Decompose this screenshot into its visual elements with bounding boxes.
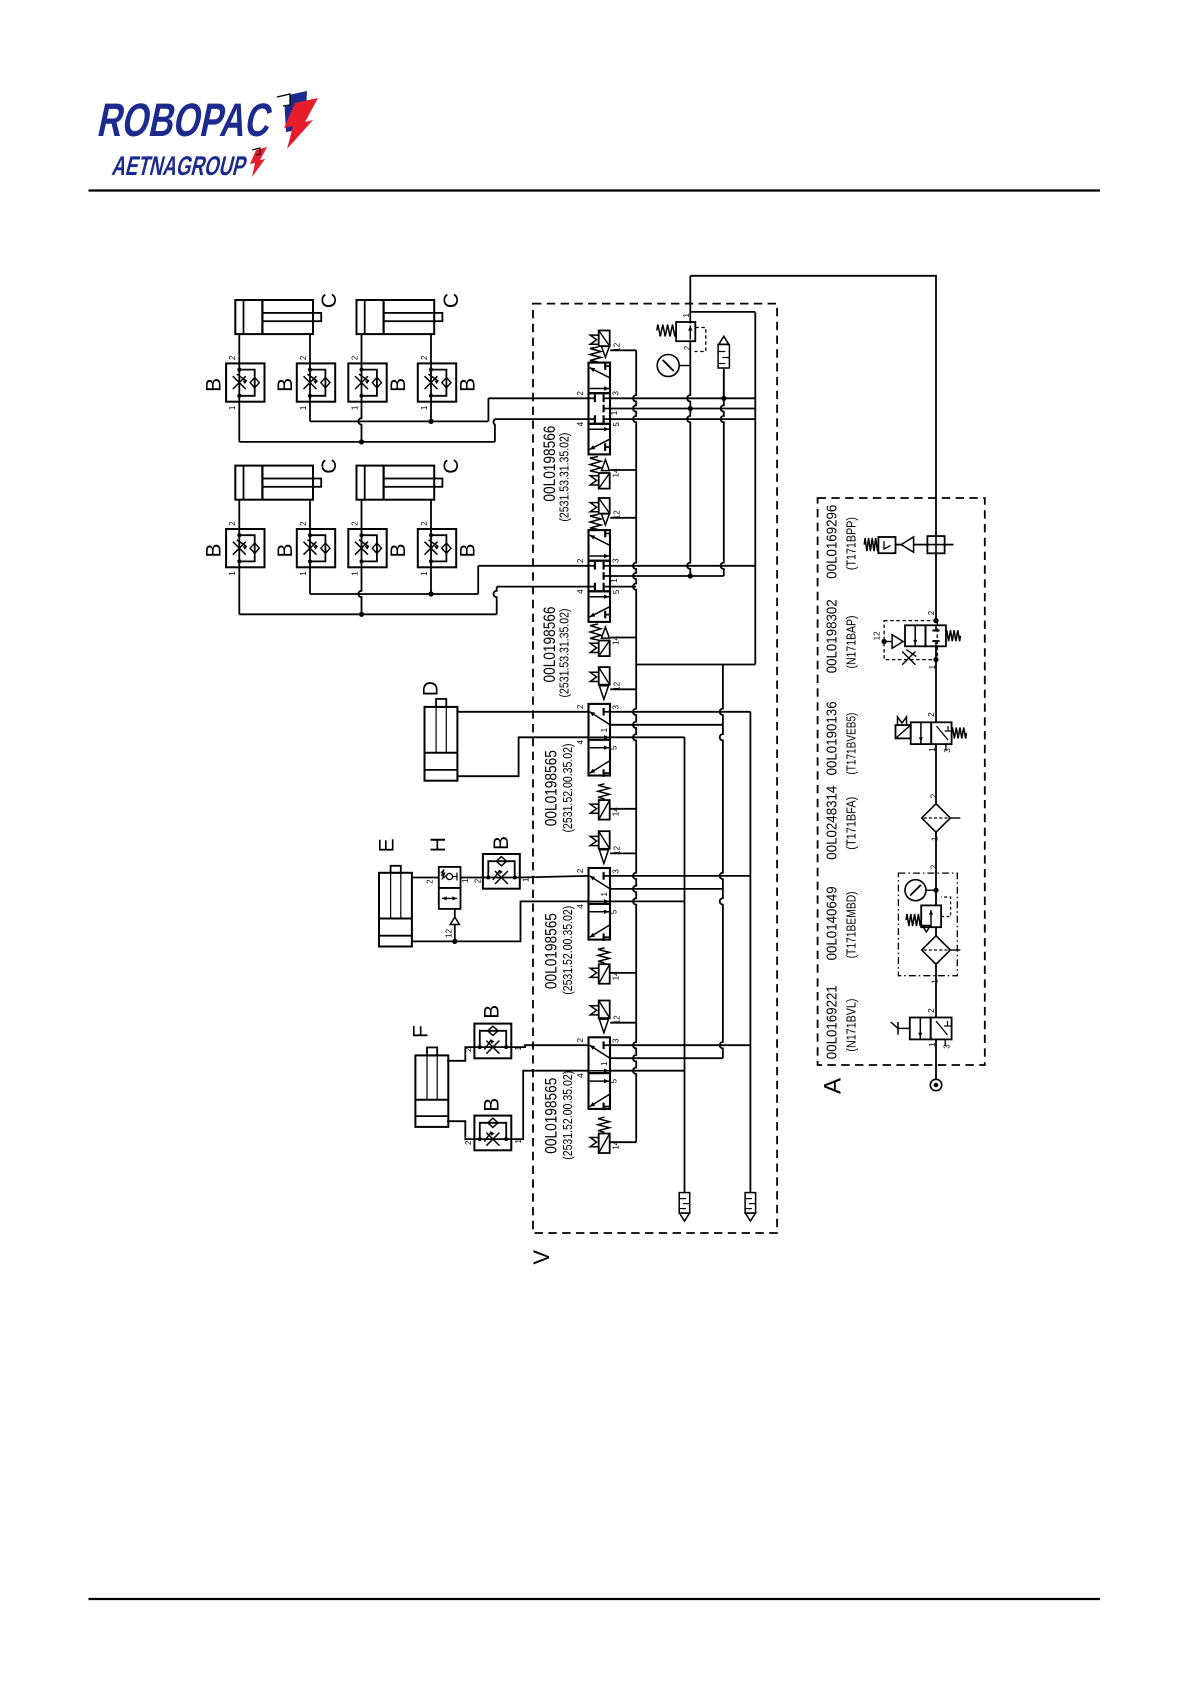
wire B lower to S5 port4 [511, 1071, 588, 1139]
5/3 right position flows [590, 535, 610, 545]
S5 port3 line [610, 1044, 750, 1046]
svg-text:1: 1 [610, 410, 619, 415]
flow control valve B2 [297, 363, 335, 401]
svg-text:(T171BFA): (T171BFA) [845, 797, 859, 850]
valve station S2 00L0198566 [589, 498, 611, 656]
svg-text:3: 3 [943, 1044, 952, 1049]
svg-text:1: 1 [350, 405, 359, 410]
svg-text:V: V [529, 1250, 554, 1265]
soft start dashed frame [884, 621, 937, 660]
mid link line [636, 664, 755, 666]
cylinder E [379, 873, 412, 947]
5/2 top pilot solenoid [599, 1019, 608, 1033]
svg-text:4: 4 [576, 589, 585, 594]
svg-text:5: 5 [610, 745, 619, 750]
5/3 left position flows [590, 607, 610, 617]
wire cylinder to B3 [361, 500, 363, 529]
flow control valve B1 [226, 363, 264, 401]
svg-text:(2531.53.31.35.02): (2531.53.31.35.02) [557, 433, 571, 522]
5/3 center box blocked ports [589, 565, 595, 567]
svg-text:4: 4 [576, 1073, 585, 1078]
svg-text:2: 2 [927, 712, 936, 717]
valve station S3 00L0198565 [589, 667, 611, 820]
S4 port1 line [610, 888, 723, 890]
svg-text:1: 1 [931, 836, 940, 841]
pressure switch box [878, 537, 895, 553]
svg-text:12: 12 [444, 928, 453, 937]
5/2 valve body boxes [589, 740, 611, 776]
5/2 top pilot solenoid [599, 686, 608, 700]
station S5 pilot tap lines [610, 1022, 636, 1024]
5/2 box1 flows [590, 876, 610, 889]
svg-text:(T171BPP): (T171BPP) [845, 517, 859, 570]
svg-text:AETNAGROUP: AETNAGROUP [110, 150, 251, 181]
shutoff valve handle [898, 1027, 910, 1029]
relief valve [676, 322, 695, 341]
cylinder C (left) [235, 300, 313, 334]
svg-text:4: 4 [576, 904, 585, 909]
wire B to S4 port2 [520, 876, 589, 878]
wire D bottom port to S3 port4 [457, 737, 588, 776]
5/2 top pilot solenoid [599, 850, 608, 864]
shutoff valve body [910, 1018, 931, 1040]
svg-text:1: 1 [228, 571, 237, 576]
svg-text:(T171BEMBD): (T171BEMBD) [845, 891, 859, 958]
lower supply rail [720, 665, 723, 1059]
soft start pilot triangle [892, 635, 903, 649]
5/3 left position flows [590, 439, 610, 449]
svg-text:5: 5 [612, 422, 621, 427]
flow control valve B (F lower) [474, 1116, 511, 1151]
flow control valve B3 [348, 363, 386, 401]
filter diamond [922, 804, 951, 833]
upper rail from top silencer [721, 370, 724, 576]
gauge in unit [905, 880, 926, 901]
svg-text:(2531.52.00.35.02): (2531.52.00.35.02) [561, 744, 575, 833]
svg-text:C: C [318, 459, 341, 474]
5/2 bottom spring + solenoid [598, 784, 610, 799]
svg-text:1: 1 [228, 405, 237, 410]
cylinder C (left) [235, 466, 313, 500]
svg-text:B: B [274, 543, 297, 557]
svg-text:4: 4 [576, 421, 585, 426]
wire cylinder to B4 [430, 334, 432, 363]
svg-text:3: 3 [611, 1038, 620, 1043]
Aetnagroup logo [110, 150, 251, 181]
svg-text:2: 2 [576, 1037, 585, 1042]
svg-text:C: C [440, 459, 463, 474]
svg-text:A: A [820, 1078, 847, 1094]
dashed enclosure A [818, 498, 985, 1065]
svg-text:B: B [490, 836, 513, 850]
svg-text:2: 2 [930, 793, 939, 798]
wire F top port to B upper [447, 1047, 474, 1061]
S1 port3 line [610, 397, 755, 399]
svg-text:2: 2 [420, 355, 429, 360]
svg-text:00L0198302: 00L0198302 [824, 599, 841, 673]
svg-text:1: 1 [931, 979, 940, 984]
S2 port3 line [610, 565, 755, 567]
5/3 left pilot solenoid+spring [590, 624, 601, 640]
svg-text:2: 2 [299, 355, 308, 360]
5/2 box2 flows [590, 761, 610, 774]
svg-text:2: 2 [299, 521, 308, 526]
5/3 valve body boxes [589, 591, 611, 622]
svg-text:1: 1 [420, 405, 429, 410]
wire E bottom + H pilot to S4 port4 [412, 901, 588, 941]
flow control valve B3 [348, 529, 386, 567]
svg-text:C: C [440, 293, 463, 308]
svg-text:B: B [387, 543, 410, 557]
svg-text:(2531.52.00.35.02): (2531.52.00.35.02) [561, 1071, 575, 1160]
svg-text:B: B [387, 378, 410, 392]
svg-text:1: 1 [420, 571, 429, 576]
svg-text:00L0169221: 00L0169221 [824, 985, 841, 1059]
svg-text:1: 1 [350, 571, 359, 576]
5/2 box2 flows [590, 1094, 610, 1107]
soft start spring [946, 630, 961, 641]
left silencer [679, 1193, 690, 1214]
svg-text:2: 2 [350, 521, 359, 526]
svg-text:2: 2 [464, 1140, 473, 1145]
S4 port3 line [610, 875, 750, 877]
cylinder F [415, 1055, 448, 1127]
footer rule [89, 1598, 1101, 1600]
svg-text:B: B [480, 1005, 503, 1019]
svg-text:F: F [410, 1025, 433, 1038]
exhaust valve solenoid [896, 725, 911, 738]
valve station S4 00L0198565 [589, 831, 611, 984]
svg-text:(T171BVEB5): (T171BVEB5) [845, 713, 859, 775]
svg-text:3: 3 [943, 748, 952, 753]
wire B upper to S5 port2 [511, 1045, 588, 1047]
svg-text:2: 2 [420, 521, 429, 526]
svg-text:1: 1 [299, 405, 308, 410]
Robopac logo lightning bolt [277, 91, 318, 149]
svg-text:1: 1 [600, 892, 609, 897]
regulator vent triangle [922, 926, 930, 933]
5/3 valve body boxes [589, 424, 611, 455]
svg-text:2: 2 [350, 355, 359, 360]
right silencer [745, 1193, 756, 1214]
upper right exhaust rail [754, 312, 756, 664]
svg-text:3: 3 [611, 391, 620, 396]
S5 port5 line [610, 1070, 684, 1072]
svg-text:2: 2 [576, 558, 585, 563]
station S3 pilot tap lines [610, 688, 636, 690]
valve station S5 00L0198565 [589, 1000, 611, 1153]
svg-text:3: 3 [611, 705, 620, 710]
svg-text:B: B [202, 543, 225, 557]
pressure switch spring [864, 538, 878, 551]
S3 port1 line [610, 724, 723, 726]
wire cylinder to B4 [430, 500, 432, 529]
svg-text:00L0190136: 00L0190136 [824, 701, 841, 775]
5/2 box1 flows [590, 1045, 610, 1058]
5/3 right pilot solenoid+spring [590, 515, 601, 530]
svg-text:B: B [202, 378, 225, 392]
svg-text:00L0198565: 00L0198565 [543, 750, 561, 826]
check valve triangle [901, 537, 913, 552]
svg-text:5: 5 [610, 909, 619, 914]
top silencer [719, 336, 729, 344]
flow control valve B4 [418, 363, 456, 401]
pressure gauge [657, 355, 679, 377]
top branch line [690, 311, 755, 313]
svg-text:(2531.53.31.35.02): (2531.53.31.35.02) [557, 609, 571, 698]
svg-text:00L0140649: 00L0140649 [824, 886, 841, 960]
svg-text:00L0198566: 00L0198566 [541, 426, 559, 502]
svg-text:2: 2 [576, 868, 585, 873]
exhaust rail to left silencer [684, 737, 686, 1192]
S5 port1 line [610, 1057, 723, 1059]
valve station S1 00L0198566 [589, 331, 611, 489]
wire cylinder to B1 [238, 334, 240, 363]
regulator box [921, 905, 941, 927]
svg-text:B: B [456, 543, 479, 557]
svg-text:00L0169296: 00L0169296 [824, 505, 841, 579]
svg-text:5: 5 [610, 1078, 619, 1083]
flow control valve B1 [226, 529, 264, 567]
5/3 center box blocked ports [589, 397, 595, 399]
svg-text:1: 1 [461, 878, 470, 883]
Robopac logo wordmark [94, 94, 277, 146]
svg-text:12: 12 [873, 631, 882, 640]
line down to soft start [935, 553, 937, 620]
regulator spring [906, 914, 921, 926]
wire H to B [461, 877, 483, 879]
S4 port5 line [610, 900, 684, 902]
pilot rail [633, 350, 636, 1142]
wire B1+B3 collector to port 4 [238, 567, 240, 614]
header rule [89, 189, 1101, 191]
supply drop from regulator [687, 341, 690, 576]
5/3 right position flows [590, 368, 610, 378]
flow control valve B (F upper) [474, 1024, 511, 1059]
5/3 left pilot solenoid+spring [590, 457, 601, 473]
svg-text:1: 1 [600, 727, 609, 732]
S2 port1 line [610, 575, 724, 577]
S1 port5 line [610, 418, 755, 420]
5/3 right pilot solenoid+spring [590, 347, 601, 362]
soft start throttle [902, 652, 915, 665]
cylinder C (right) [357, 466, 435, 500]
5/2 box1 flows [590, 712, 610, 725]
station S2 pilot tap lines [610, 517, 636, 519]
svg-text:00L0248314: 00L0248314 [824, 786, 841, 860]
quick coupling square [927, 536, 944, 553]
svg-text:C: C [318, 293, 341, 308]
svg-text:00L0198565: 00L0198565 [543, 913, 561, 989]
svg-text:B: B [480, 1098, 503, 1112]
svg-text:E: E [376, 838, 399, 852]
wire B2+B4 collector to port 2 [309, 402, 311, 422]
station S4 pilot tap lines [610, 852, 636, 854]
wire B1+B3 collector to port 4 [238, 402, 240, 442]
svg-text:(2531.52.00.35.02): (2531.52.00.35.02) [561, 906, 575, 995]
wire cylinder to B2 [309, 500, 311, 529]
flow control valve B (E group) [483, 854, 520, 889]
Aetnagroup bolt [250, 147, 267, 177]
wire E top port to H [412, 877, 439, 879]
5/2 bottom spring + solenoid [598, 1117, 610, 1132]
filter diamond 2 [922, 936, 951, 965]
svg-text:ROBOPAC: ROBOPAC [94, 94, 277, 146]
wire cylinder to B1 [238, 500, 240, 529]
svg-text:00L0198565: 00L0198565 [543, 1078, 561, 1154]
lower right exhaust rail [749, 712, 751, 1193]
svg-text:2: 2 [576, 391, 585, 396]
regulator dashed feedback [941, 897, 951, 917]
svg-text:00L0198566: 00L0198566 [541, 607, 559, 683]
valve H pilot triangle 12 [450, 917, 459, 925]
S1 port1 line [610, 408, 755, 410]
S3 port3 line [610, 711, 750, 713]
svg-text:2: 2 [228, 521, 237, 526]
svg-text:B: B [274, 378, 297, 392]
valve H body [439, 867, 461, 888]
svg-text:B: B [456, 378, 479, 392]
wire B2+B4 collector to port 2 [309, 567, 311, 594]
S3 port5 line [610, 736, 684, 738]
5/2 box2 flows [590, 925, 610, 938]
supply link from A to manifold [690, 276, 936, 536]
svg-text:2: 2 [228, 355, 237, 360]
wire cylinder to B2 [309, 334, 311, 363]
svg-text:3: 3 [611, 558, 620, 563]
soft start valve body [905, 625, 926, 646]
svg-text:2: 2 [930, 864, 939, 869]
svg-text:2: 2 [473, 878, 482, 883]
svg-text:1: 1 [610, 578, 619, 583]
svg-text:(N171BVL): (N171BVL) [845, 999, 859, 1052]
supply source [935, 1039, 937, 1079]
svg-text:3: 3 [611, 869, 620, 874]
svg-text:H: H [427, 837, 450, 852]
svg-text:(N171BAP): (N171BAP) [845, 616, 859, 669]
svg-text:4: 4 [576, 740, 585, 745]
cylinder C (right) [357, 300, 435, 334]
svg-text:2: 2 [927, 1008, 936, 1013]
filter-regulator dash-dot frame [898, 873, 957, 976]
flow control valve B2 [297, 529, 335, 567]
svg-text:D: D [420, 681, 443, 696]
exhaust valve body [911, 722, 932, 744]
5/2 valve body boxes [589, 1073, 611, 1109]
dashed enclosure V [533, 304, 777, 1233]
exhaust valve spring [952, 728, 967, 739]
svg-text:1: 1 [299, 571, 308, 576]
5/2 valve body boxes [589, 904, 611, 940]
supply entry line into manifold [689, 276, 691, 312]
svg-text:1: 1 [682, 313, 691, 318]
cylinder D [425, 707, 458, 781]
svg-text:2: 2 [927, 610, 936, 615]
svg-text:2: 2 [426, 879, 435, 884]
S2 port5 line [610, 586, 636, 588]
flow control valve B4 [418, 529, 456, 567]
5/2 bottom spring + solenoid [598, 948, 610, 963]
wire F bottom port to B lower [447, 1121, 474, 1139]
svg-text:1: 1 [600, 1061, 609, 1066]
station S1 pilot tap lines [610, 349, 636, 351]
wire cylinder to B3 [361, 334, 363, 363]
svg-text:5: 5 [612, 589, 621, 594]
svg-text:2: 2 [683, 345, 692, 350]
wire D top port to S3 port2 [457, 711, 588, 713]
svg-text:2: 2 [576, 704, 585, 709]
